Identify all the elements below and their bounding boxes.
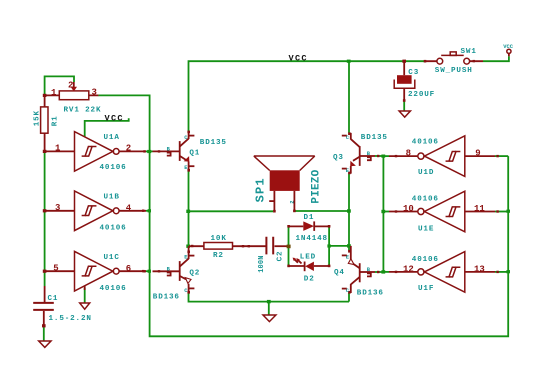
- svg-text:VCC: VCC: [289, 54, 308, 64]
- svg-text:R1: R1: [51, 115, 59, 126]
- svg-text:VCC: VCC: [105, 113, 124, 123]
- svg-text:100N: 100N: [258, 255, 266, 272]
- wire left input rail x=44.6: [44, 151, 46, 286]
- svg-text:3: 3: [55, 203, 60, 213]
- wire Q1 emitter column to Q2: [188, 171, 190, 246]
- svg-text:2: 2: [126, 143, 131, 153]
- svg-text:Q3: Q3: [333, 154, 344, 162]
- junction dot C1 bottom: [42, 324, 46, 327]
- potentiometer RV1: [45, 80, 102, 114]
- wire Q2 collector to push-pull bottom rail: [189, 293, 350, 301]
- svg-text:PIEZO: PIEZO: [311, 169, 323, 203]
- wire RV1 pin3 to output rail: [98, 95, 149, 150]
- svg-text:U1F: U1F: [418, 285, 434, 293]
- svg-text:15K: 15K: [33, 110, 41, 126]
- svg-text:Q2: Q2: [189, 270, 200, 278]
- transistor Q2 BD136: [143, 246, 200, 301]
- wire U1E in green: [495, 211, 508, 213]
- inverter U1B: [45, 191, 146, 233]
- svg-text:D1: D1: [304, 214, 315, 222]
- wire U1D out green: [383, 155, 389, 157]
- junction dot U1B input: [43, 209, 47, 212]
- resistor R1: [33, 95, 59, 151]
- wire U1F in green: [495, 271, 508, 273]
- wire mid ground stub: [268, 302, 270, 315]
- transistor Q4 BD136 mirrored: [334, 246, 384, 298]
- svg-text:VCC: VCC: [503, 44, 513, 50]
- svg-text:Q1: Q1: [189, 150, 200, 158]
- inverter U1E mirrored: [389, 191, 499, 233]
- LED D2: [287, 253, 330, 283]
- wire D network right vertical: [328, 226, 330, 265]
- capacitor C2: [258, 237, 289, 273]
- resistor R2: [189, 235, 266, 260]
- svg-text:40106: 40106: [100, 285, 127, 293]
- svg-text:R2: R2: [213, 252, 224, 260]
- wire Q4 base green: [375, 271, 383, 273]
- wire D network to Q column: [330, 245, 349, 247]
- svg-text:BD135: BD135: [361, 134, 388, 142]
- wire driver rail x=383.4: [382, 156, 384, 272]
- svg-text:BD135: BD135: [200, 139, 227, 147]
- junction output rail U1A: [147, 150, 151, 153]
- svg-text:1: 1: [51, 88, 57, 98]
- svg-text:2: 2: [289, 200, 296, 203]
- junction dot U1B output wire end: [142, 210, 144, 212]
- svg-text:8: 8: [406, 148, 411, 158]
- junction dot U1C input: [43, 270, 47, 273]
- svg-text:40106: 40106: [100, 225, 127, 233]
- inverter U1F mirrored: [389, 252, 499, 293]
- svg-text:C1: C1: [48, 295, 59, 303]
- junction output rail U1C: [148, 270, 151, 273]
- svg-text:1.5-2.2N: 1.5-2.2N: [49, 315, 92, 323]
- junction driver rail U1D: [381, 155, 385, 158]
- switch SW1 SW_PUSH: [424, 48, 483, 75]
- ground under U1C: [80, 303, 90, 309]
- ground under C1: [39, 341, 51, 347]
- wire U1B out green segment: [146, 210, 151, 212]
- junction top rail Q3: [347, 60, 351, 63]
- svg-text:C2: C2: [276, 251, 284, 262]
- wire switch to VCC symbol: [483, 56, 509, 61]
- inverter U1A: [45, 132, 146, 172]
- svg-text:BD136: BD136: [357, 290, 384, 298]
- svg-text:40106: 40106: [412, 256, 439, 264]
- svg-text:1: 1: [55, 144, 61, 154]
- svg-text:10: 10: [403, 204, 414, 214]
- wire push-pull bottom to Q4: [348, 293, 350, 302]
- junction push-pull ground rail: [267, 300, 271, 303]
- svg-text:LED: LED: [300, 253, 316, 261]
- junction dot C3 top: [402, 60, 406, 63]
- wire D network left vertical: [288, 226, 290, 265]
- svg-text:40106: 40106: [100, 164, 127, 172]
- svg-text:U1D: U1D: [418, 169, 434, 177]
- wire U1A out green segment: [146, 150, 153, 152]
- svg-text:11: 11: [474, 204, 485, 214]
- svg-text:SW_PUSH: SW_PUSH: [435, 67, 473, 75]
- svg-text:9: 9: [475, 148, 480, 158]
- junction diode network right: [347, 244, 351, 247]
- junction diode mid right green: [327, 244, 330, 247]
- svg-text:40106: 40106: [412, 138, 439, 146]
- wire C1 bottom to ground: [43, 326, 45, 341]
- junction driver rail U1E: [381, 210, 385, 213]
- wire SP1 row left: [189, 210, 274, 212]
- wire Q3 collector column: [348, 61, 350, 133]
- junction emitter rail R2 row: [186, 245, 190, 248]
- svg-text:U1E: U1E: [418, 225, 434, 233]
- junction driver rail U1F: [381, 270, 385, 273]
- wire Q3 emitter column: [348, 174, 350, 251]
- svg-text:12: 12: [403, 264, 414, 274]
- svg-text:U1B: U1B: [104, 194, 120, 202]
- svg-text:5: 5: [53, 263, 58, 273]
- svg-text:220UF: 220UF: [408, 91, 435, 99]
- wire output rail x=149.6 down and bottom rail to right rail up: [150, 150, 509, 336]
- svg-text:6: 6: [126, 264, 131, 274]
- svg-text:C3: C3: [408, 69, 419, 77]
- wire SP1 row right: [296, 210, 350, 212]
- wire VCC stub U1A: [85, 118, 129, 136]
- svg-text:RV1 22K: RV1 22K: [64, 107, 102, 115]
- svg-text:U1C: U1C: [104, 254, 120, 262]
- wire top VCC rail: [189, 61, 425, 131]
- inverter U1D mirrored: [389, 136, 499, 177]
- capacitor C1: [33, 286, 92, 326]
- svg-text:SW1: SW1: [461, 48, 477, 56]
- wire RV1 feedback loop top: [45, 76, 74, 95]
- wire U1D in green: [495, 155, 508, 157]
- capacitor C3 220UF polarized: [394, 61, 435, 102]
- wire C3 to ground: [403, 101, 405, 112]
- svg-text:4: 4: [126, 203, 132, 213]
- wire U1E out green: [383, 211, 389, 213]
- svg-text:D2: D2: [304, 275, 315, 283]
- svg-text:BD136: BD136: [153, 293, 180, 301]
- junction right rail U1F input: [506, 270, 510, 273]
- junction dot U1A input: [43, 150, 47, 153]
- diode D1 1N4148: [287, 214, 330, 243]
- junction dot RV1 pin1: [43, 94, 47, 97]
- svg-text:3: 3: [92, 88, 97, 98]
- svg-text:U1A: U1A: [104, 134, 120, 142]
- ground under C3: [399, 111, 410, 117]
- wire U1F out green: [383, 271, 389, 273]
- inverter U1C: [45, 251, 146, 293]
- supply symbol VCC top right: [503, 44, 513, 56]
- svg-text:13: 13: [474, 264, 485, 274]
- junction dot U1C output wire end: [142, 270, 144, 272]
- transistor Q1 BD135: [143, 131, 227, 172]
- transistor Q3 BD135 mirrored: [333, 132, 388, 174]
- wire U1C gnd stub: [84, 288, 86, 303]
- svg-text:10K: 10K: [211, 235, 227, 243]
- wire Q3 base green: [375, 155, 383, 157]
- svg-text:1N4148: 1N4148: [296, 235, 328, 243]
- junction SP1 right leg row: [347, 209, 351, 212]
- svg-text:Q4: Q4: [334, 269, 345, 277]
- junction output rail U1B: [148, 209, 151, 212]
- svg-text:2: 2: [68, 80, 73, 90]
- junction emitter rail SP1 row: [186, 210, 190, 213]
- wire U1C out green segment: [146, 270, 151, 272]
- ground mid bottom: [263, 315, 276, 322]
- junction right rail U1E input: [506, 210, 510, 213]
- svg-text:SP1: SP1: [253, 177, 267, 202]
- speaker SP1 PIEZO: [253, 156, 322, 213]
- junction dot C2-D network: [287, 245, 291, 249]
- svg-text:40106: 40106: [412, 195, 439, 203]
